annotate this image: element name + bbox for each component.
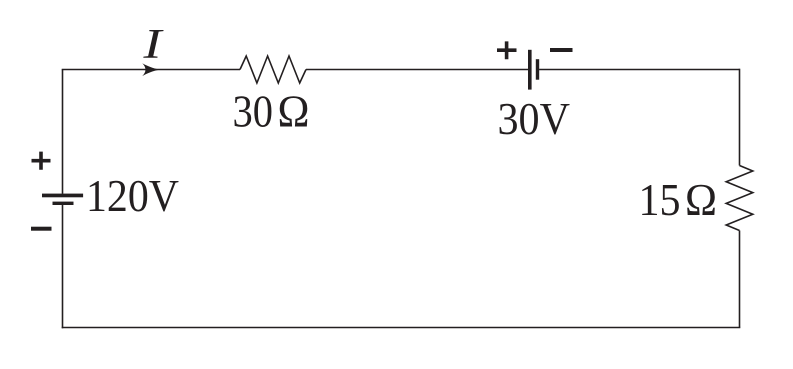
resistor R1 30ohm (horizontal zigzag) [240, 56, 306, 83]
wire: bottom side of loop [62, 327, 741, 329]
resistor R2 15ohm (vertical zigzag) [726, 166, 753, 231]
minus sign of battery V2 [550, 48, 573, 52]
minus sign of battery V1 [31, 227, 52, 231]
svg-text:15: 15 [639, 174, 681, 225]
svg-text:30V: 30V [498, 93, 571, 144]
svg-text:Ω: Ω [685, 174, 717, 225]
wire: left side top segment (corner to 120V battery) [62, 70, 64, 194]
svg-text:I: I [142, 22, 164, 68]
plus sign of battery V2 [497, 41, 517, 59]
wire: left side bottom segment (120V battery to bottom-left corner) [62, 205, 64, 328]
wire: right side from resistor R2 down to bottom-right corner [739, 231, 741, 328]
battery V1 120V short negative plate [53, 202, 74, 205]
svg-text:30: 30 [233, 86, 274, 137]
battery V2 30V short negative plate [536, 59, 539, 79]
wire: top side from resistor R1 to 30V battery positive plate [306, 69, 528, 71]
wire: top side from 30V battery negative plate to top-right corner [539, 69, 739, 71]
svg-text:Ω: Ω [278, 86, 310, 137]
current arrowhead on top wire [142, 63, 160, 76]
battery V1 120V long positive plate [42, 194, 83, 198]
battery V2 30V tall positive plate [528, 50, 532, 90]
wire: top side from top-left corner to resistor R1 [62, 69, 240, 71]
svg-text:120V: 120V [86, 170, 179, 221]
plus sign of battery V1 [32, 152, 51, 170]
wire: right side from top-right corner down to resistor R2 [739, 69, 741, 166]
